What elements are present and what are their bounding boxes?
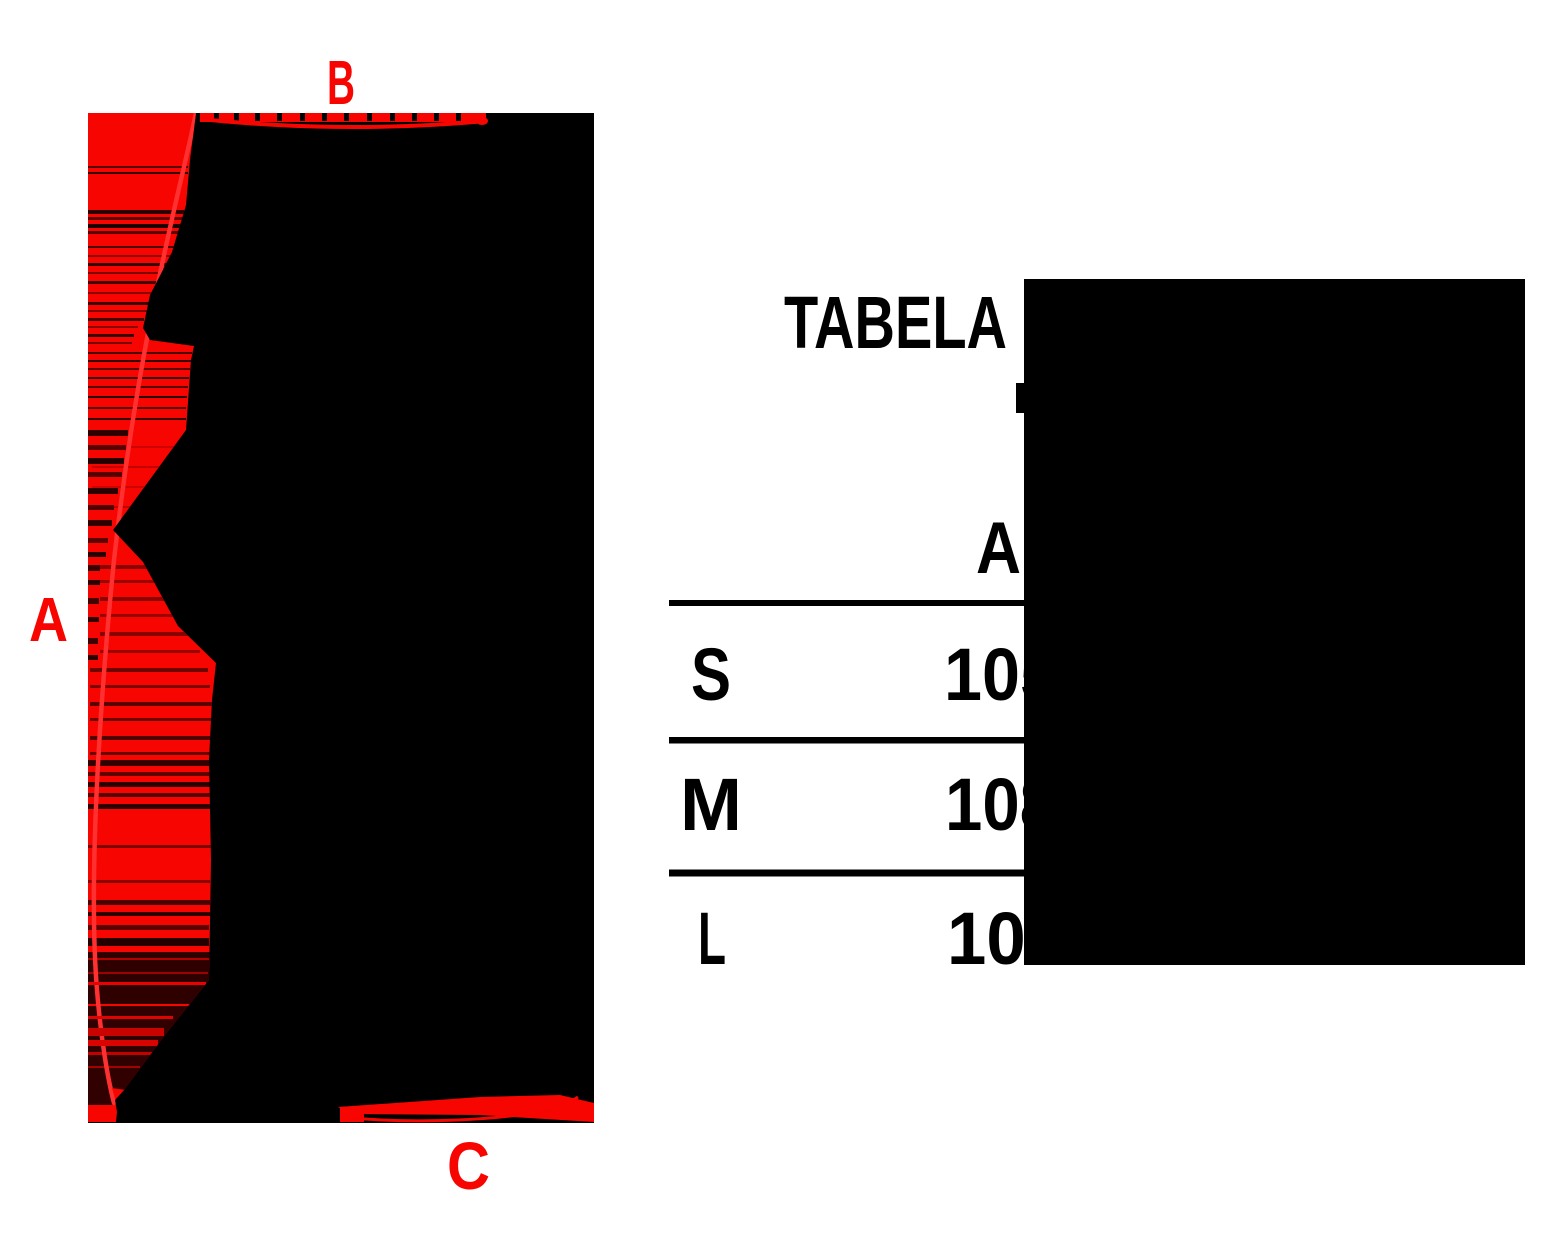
svg-text:A: A xyxy=(29,586,68,655)
svg-text:A: A xyxy=(976,508,1021,589)
svg-text:B: B xyxy=(327,49,355,118)
svg-text:L: L xyxy=(698,897,726,980)
svg-text:C: C xyxy=(447,1129,490,1204)
svg-text:S: S xyxy=(691,633,731,716)
svg-text:M: M xyxy=(680,763,742,846)
svg-text:TABELA: TABELA xyxy=(784,281,1007,364)
